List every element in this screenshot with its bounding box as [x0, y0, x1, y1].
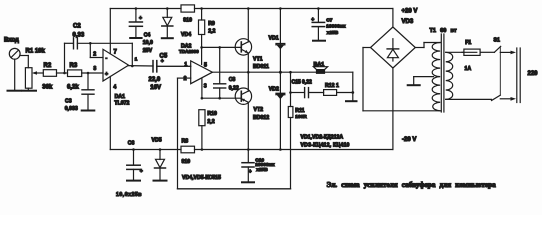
wire R2 to R3 [57, 72, 68, 74]
node VT1 collector rail [247, 7, 250, 10]
diode VD2 [276, 72, 285, 149]
svg-text:VD2: VD2 [269, 87, 279, 93]
svg-text:х25В: х25В [256, 167, 268, 173]
ground C3 [82, 110, 95, 112]
svg-text:910: 910 [182, 159, 191, 165]
svg-text:2: 2 [184, 76, 187, 82]
wire circle to ground [14, 59, 16, 90]
capacitor C6 [127, 148, 140, 180]
svg-text:1: 1 [184, 62, 187, 68]
wire DA1 pin2 stub [90, 43, 103, 57]
svg-text:R1 10k: R1 10k [26, 48, 46, 54]
svg-text:+: + [249, 169, 252, 175]
svg-text:C2: C2 [73, 24, 81, 30]
input connector X1 [9, 48, 20, 59]
wire DA2 pin3 down [201, 78, 203, 98]
svg-text:3: 3 [204, 83, 207, 89]
node VD1/VD2 output junction [279, 71, 282, 74]
resistor R8 [181, 146, 195, 153]
svg-text:S1: S1 [494, 38, 500, 44]
ground C6 [127, 180, 140, 182]
resistor R9 [199, 7, 205, 47]
wire DA2 pin5 supply [201, 47, 203, 64]
svg-text:2,2: 2,2 [208, 28, 215, 34]
wire DA2 feedback bottom line [178, 78, 291, 189]
pin 4 wire DA1 [109, 77, 111, 150]
ground R1 [23, 90, 37, 92]
svg-text:C3: C3 [65, 99, 72, 105]
rectifier bridge VD3 [371, 27, 416, 68]
svg-text:10000мк: 10000мк [326, 24, 346, 30]
resistor R12 [324, 90, 353, 96]
wire bridge AC right [415, 43, 440, 48]
capacitor C8 [214, 47, 226, 98]
svg-text:-: - [106, 56, 108, 62]
svg-text:100R: 100R [295, 114, 307, 120]
ground VD4 [162, 37, 173, 39]
svg-text:C15 0,22: C15 0,22 [292, 79, 313, 85]
wire bridge AC left [363, 48, 440, 111]
transformer center tap wire [414, 77, 434, 85]
wire bridge plus to rail [392, 9, 394, 28]
svg-text:BA1: BA1 [314, 62, 325, 68]
ground VD5 [154, 180, 167, 182]
svg-text:6,2k: 6,2k [67, 84, 79, 90]
capacitor C9 zobel [291, 88, 324, 98]
wire zobel drop [290, 72, 292, 106]
diode VD1 [276, 9, 285, 73]
svg-text:TDA2030: TDA2030 [179, 49, 199, 54]
svg-text:Вход: Вход [4, 38, 19, 44]
ground input [8, 90, 22, 92]
wire fuse to switch [480, 51, 494, 53]
capacitor C4 [129, 7, 142, 38]
node VT1 emitter output junction [247, 71, 250, 74]
wire switch to plug top with arrow [500, 51, 516, 55]
svg-text:DA1: DA1 [115, 94, 125, 100]
svg-text:910: 910 [183, 18, 192, 24]
ground center tap [408, 84, 420, 86]
mains plug prongs [517, 48, 520, 103]
wire R3 to pin3 DA1 [82, 72, 103, 74]
wire pin2 input [178, 77, 191, 79]
switch S1 bottom blade [492, 95, 501, 100]
transformer T1 primary winding [446, 52, 453, 99]
wire primary top to fuse [446, 51, 464, 53]
wire primary bottom to switch [446, 98, 492, 100]
capacitor C3 [82, 73, 94, 110]
ground C7 [313, 40, 325, 42]
transformer T1 secondary winding [432, 43, 440, 111]
node pin2 stub junction [89, 42, 92, 45]
svg-text:C7: C7 [326, 17, 332, 23]
node zobel end junction [351, 91, 354, 94]
loudspeaker BA1 [313, 67, 327, 74]
svg-text:T1 60 вт: T1 60 вт [430, 28, 457, 34]
svg-text:+: + [139, 16, 142, 22]
svg-text:VD5: VD5 [152, 137, 162, 143]
svg-text:10,0х25в: 10,0х25в [116, 192, 142, 198]
svg-text:BD911: BD911 [253, 64, 269, 70]
resistor R10 [199, 110, 205, 150]
capacitor C5 22,0 [153, 61, 191, 72]
resistor R2 [43, 70, 56, 77]
svg-text:VT2: VT2 [254, 107, 264, 113]
node DA1 output junction [131, 65, 134, 68]
op-amp DA1 triangle [103, 49, 129, 81]
ground speaker [346, 100, 357, 102]
node R9/base junction [200, 46, 203, 49]
svg-text:C6: C6 [128, 140, 135, 146]
wire feedback drop to DA1 output [131, 43, 133, 66]
wire output corner down to ground [352, 72, 354, 101]
svg-text:VD4,VD5-КС515: VD4,VD5-КС515 [182, 175, 221, 181]
wire DA1 output to C5 [128, 65, 153, 67]
node R2/R3/C2 junction [63, 72, 66, 75]
svg-text:0,033: 0,033 [65, 106, 78, 112]
svg-text:VD1,VD2-КД212А: VD1,VD2-КД212А [301, 134, 344, 140]
zener diode VD5 [155, 148, 166, 180]
svg-text:R8: R8 [182, 139, 189, 145]
svg-text:+: + [140, 168, 143, 174]
wire switch to plug bottom with arrow [500, 97, 516, 101]
svg-text:C8: C8 [229, 77, 236, 83]
pin 7 wire DA1 [109, 9, 111, 54]
switch S1 top blade [494, 46, 500, 52]
node VD2 rail junction [279, 148, 282, 151]
switch S1 gang link [499, 47, 501, 95]
capacitor C10 [242, 150, 254, 183]
wire DA2 output [212, 71, 352, 73]
svg-text:1: 1 [135, 56, 138, 62]
svg-text:2: 2 [93, 52, 96, 58]
svg-text:C4: C4 [144, 32, 151, 38]
svg-text:2,2: 2,2 [207, 119, 214, 125]
svg-text:4: 4 [113, 85, 116, 91]
wiper arrow wire R1 to R2 [32, 71, 43, 75]
svg-text:+20 V: +20 V [402, 9, 418, 15]
svg-text:10,0: 10,0 [143, 40, 153, 46]
transformer T1 core [441, 34, 444, 112]
node zobel output junction [289, 71, 292, 74]
svg-text:-20 V: -20 V [402, 137, 416, 143]
svg-text:F1: F1 [465, 40, 471, 46]
svg-text:TL072: TL072 [114, 101, 129, 107]
svg-text:R12 1: R12 1 [325, 83, 339, 89]
capacitor C2 feedback line [65, 38, 133, 49]
svg-text:Эл. схема усилителя сабвуфера: Эл. схема усилителя сабвуфера для компью… [327, 181, 497, 189]
resistor R7 [181, 5, 195, 12]
ground C10 [242, 181, 254, 183]
svg-text:VD4: VD4 [181, 32, 191, 38]
svg-text:R3: R3 [70, 63, 78, 69]
svg-text:1А: 1А [465, 66, 472, 72]
node C3 junction [87, 72, 90, 75]
wire bridge minus down [392, 68, 394, 150]
transistor VT2 [235, 72, 251, 149]
svg-text:22,0: 22,0 [149, 77, 161, 83]
svg-text:VD3-КЦ412, КЦ410: VD3-КЦ412, КЦ410 [301, 143, 350, 149]
wire input to R1 [20, 55, 28, 57]
svg-text:VD3: VD3 [402, 19, 414, 25]
node VT2 base junction [201, 97, 204, 100]
svg-text:R2: R2 [44, 63, 52, 69]
wire VT1 base line [202, 46, 242, 48]
svg-text:16V: 16V [150, 85, 161, 91]
node C8 top junction [218, 46, 221, 49]
node VT2 emitter rail junction [247, 148, 250, 151]
node C8 bottom junction [218, 97, 221, 100]
svg-text:R11: R11 [295, 108, 304, 114]
svg-text:R9: R9 [208, 21, 215, 27]
resistor R1 (potentiometer) [25, 56, 32, 91]
svg-text:+: + [161, 59, 164, 65]
top rail +15/+20V [110, 8, 393, 10]
resistor R3 [68, 70, 82, 77]
svg-text:VD1: VD1 [269, 36, 279, 42]
zener diode VD4 [162, 7, 173, 38]
svg-text:+: + [105, 72, 108, 78]
svg-text:220: 220 [528, 71, 539, 77]
wire junction up to C2 line [64, 43, 66, 73]
svg-text:х25В: х25В [327, 30, 339, 36]
wire pin1 input [157, 65, 191, 67]
svg-text:VT1: VT1 [253, 57, 263, 63]
resistor R11 [288, 107, 293, 189]
wire VT2 base line [202, 97, 241, 99]
svg-text:3: 3 [93, 66, 96, 72]
node VD1 rail [279, 7, 282, 10]
capacitor C7 [312, 7, 324, 40]
svg-text:R10: R10 [207, 111, 217, 117]
transistor VT1 [235, 9, 251, 73]
svg-text:+: + [311, 17, 314, 23]
node R10 rail junction [201, 148, 204, 151]
node zobel branch junction [289, 91, 292, 94]
svg-text:0,33: 0,33 [73, 33, 85, 39]
svg-text:BD912: BD912 [253, 115, 269, 121]
op-amp DA2 triangle [191, 61, 213, 84]
ground C4 [130, 37, 141, 39]
svg-text:25V: 25V [143, 48, 153, 54]
fuse F1 [462, 49, 480, 55]
negative rail -20V [110, 149, 393, 151]
svg-text:36k: 36k [42, 84, 53, 90]
